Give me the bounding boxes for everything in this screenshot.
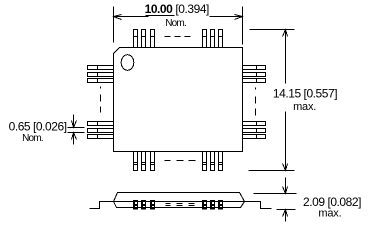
dimension line 10.00 left segment xyxy=(114,16,149,18)
left pin L1 xyxy=(88,66,114,70)
left pin L6 xyxy=(88,135,114,139)
left pin L5 xyxy=(88,129,114,133)
svg-text:14.15 [0.557]: 14.15 [0.557] xyxy=(273,87,337,101)
top centerline dashes xyxy=(165,36,191,38)
top pin a3 xyxy=(151,30,155,48)
svg-text:[0.394]: [0.394] xyxy=(175,2,209,16)
top pin a4 xyxy=(203,30,207,48)
arrowhead left of 10.00 xyxy=(114,15,122,20)
dimension line 14.15 lower segment xyxy=(285,112,287,171)
side view parting line xyxy=(114,201,245,203)
left centerline dashes xyxy=(100,87,102,113)
dimension line 10.00 right segment xyxy=(210,16,243,18)
pin 1 index circle xyxy=(121,55,134,71)
extension line right for 10.00 xyxy=(242,7,244,45)
side bar s5 xyxy=(210,200,215,210)
left pin L4 xyxy=(88,122,114,126)
bottom pin b6 xyxy=(219,152,223,171)
side view left lead xyxy=(90,202,114,209)
reference line bottom for 14.15 xyxy=(249,170,295,172)
arrow down of 2.09 xyxy=(283,178,288,194)
svg-text:10.00: 10.00 xyxy=(145,2,174,16)
right pin R2 xyxy=(243,73,266,77)
bottom pin b1 xyxy=(134,152,138,171)
right pin R4 xyxy=(243,122,266,126)
bottom pin b2 xyxy=(142,152,146,171)
side bar s3 xyxy=(150,200,155,210)
svg-text:Nom.: Nom. xyxy=(165,18,186,29)
arrow down of 0.65 xyxy=(72,115,77,128)
side view right lead xyxy=(245,202,272,209)
arrowhead up of 14.15 xyxy=(283,30,288,37)
bottom pin b5 xyxy=(211,152,215,171)
side bar s6 xyxy=(218,200,223,210)
right pin R1 xyxy=(243,66,266,70)
side view centerline dashes xyxy=(166,204,195,206)
dimension line 14.15 upper segment xyxy=(285,30,287,84)
right pin R3 xyxy=(243,79,266,83)
svg-text:max.: max. xyxy=(293,101,316,113)
reference line top for 14.15 xyxy=(250,29,295,31)
bottom pin b4 xyxy=(203,152,207,171)
side bar s4 xyxy=(202,200,207,210)
dimension tick lines for 0.65 xyxy=(68,128,85,133)
bottom centerline dashes xyxy=(165,160,196,162)
reference line lower for 2.09 xyxy=(277,209,296,211)
svg-text:0.65 [0.026]: 0.65 [0.026] xyxy=(9,119,67,133)
top pin a2 xyxy=(142,30,146,48)
right pin R5 xyxy=(243,129,266,133)
svg-text:max.: max. xyxy=(318,208,341,220)
side bar s2 xyxy=(141,200,146,210)
arrow up of 2.09 xyxy=(283,210,288,222)
top pin a5 xyxy=(211,30,215,48)
side view pin bars xyxy=(133,200,223,210)
arrowhead right of 10.00 xyxy=(235,15,243,20)
right pin R6 xyxy=(243,135,266,139)
reference line upper for 2.09 xyxy=(254,193,297,195)
extension line left for 10.00 xyxy=(113,7,115,43)
svg-text:Nom.: Nom. xyxy=(22,133,43,144)
side bar s1 xyxy=(133,200,138,210)
left pin L3 xyxy=(88,79,114,83)
arrowhead down of 14.15 xyxy=(283,164,288,171)
left pin L2 xyxy=(88,73,114,77)
arrow up of 0.65 xyxy=(72,133,77,145)
side view body outline xyxy=(114,193,245,208)
right centerline dashes xyxy=(255,88,257,116)
package body top view xyxy=(114,48,243,152)
top pin a6 xyxy=(219,30,223,48)
top pin a1 xyxy=(134,30,138,48)
underline of 10.00 xyxy=(146,15,175,17)
bottom pin b3 xyxy=(151,152,155,171)
